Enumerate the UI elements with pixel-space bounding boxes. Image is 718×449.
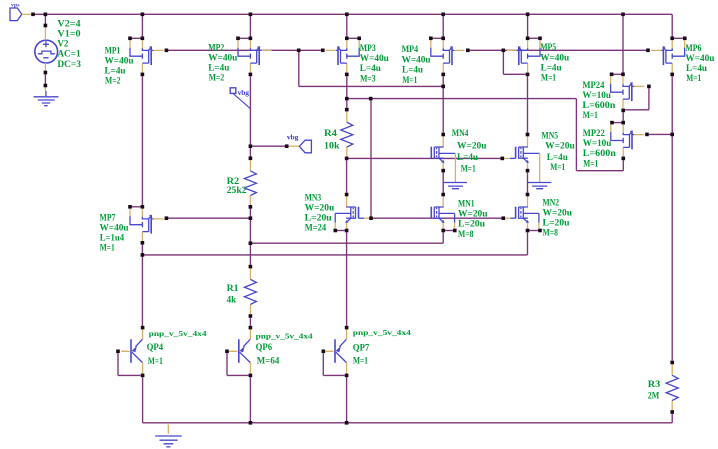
svg-text:W=10u: W=10u — [583, 139, 612, 149]
svg-text:pnp_v_5v_4x4: pnp_v_5v_4x4 — [353, 328, 411, 337]
svg-text:MP7: MP7 — [100, 213, 116, 223]
node vbg pin wire end — [285, 144, 289, 148]
node MN1 drain pin — [441, 193, 445, 197]
node MP1 bulk pin — [128, 37, 132, 41]
wire MP7 drain down — [141, 245, 143, 326]
node MP22 gate pin — [645, 133, 649, 137]
node R2 bottom pin — [249, 205, 253, 209]
transistor MN2 nmos — [516, 196, 539, 229]
svg-text:pnp_v_5v_4x4: pnp_v_5v_4x4 — [149, 329, 207, 338]
wire MP22 gate tie to column — [649, 133, 672, 135]
node MP22 drain pin — [622, 157, 626, 161]
node vdd V2 junction — [44, 13, 48, 17]
node V2 gnd — [44, 84, 48, 88]
wire MP1 bulk tie — [130, 37, 142, 39]
node MP4 gate pin — [466, 49, 470, 53]
svg-text:L=20u: L=20u — [305, 214, 332, 224]
wire MP24 bulk tie — [612, 73, 623, 75]
node QP7 emitter pin — [345, 326, 349, 330]
wire ground rail bottom — [143, 422, 673, 424]
wire MP5 drain to MN5 drain — [527, 76, 529, 133]
node MP5 bulk pin — [538, 37, 542, 41]
svg-text:MP24: MP24 — [582, 81, 604, 91]
wire y255 horizontal — [142, 254, 527, 256]
voltage source V2 — [35, 27, 58, 71]
node QP7 collector pin — [345, 374, 349, 378]
transistor MP2 pmos — [238, 40, 272, 72]
node MP2 source pin — [249, 37, 253, 41]
svg-text:R3: R3 — [648, 380, 661, 390]
transistor MP4 pmos — [431, 40, 465, 72]
svg-text:M=1: M=1 — [550, 163, 565, 173]
svg-text:M=1: M=1 — [686, 74, 701, 84]
node R4 bottom pin — [345, 157, 349, 161]
wire MP24 gate down — [648, 88, 650, 110]
transistor QP6 pnp — [229, 329, 250, 373]
node MP22 source pin — [621, 121, 625, 125]
node MN3 source pin — [345, 229, 349, 233]
node MP7 bulk pin — [128, 205, 132, 209]
node QP7 base pin — [322, 350, 326, 354]
node R3 top pin — [670, 361, 674, 365]
wire MN4 source to MN1 drain — [442, 172, 444, 192]
node MP4 source pin — [441, 37, 445, 41]
svg-text:M=64: M=64 — [257, 357, 280, 367]
wire MP2 bulk tie — [238, 37, 250, 39]
wire vdd top rail — [33, 13, 672, 15]
svg-text:W=20u: W=20u — [457, 142, 487, 152]
transistor MN4 nmos — [431, 136, 467, 188]
resistor R3 — [666, 364, 678, 410]
port vps input pin — [10, 2, 31, 20]
svg-text:L=600n: L=600n — [583, 149, 617, 159]
svg-text:R4: R4 — [324, 129, 337, 139]
svg-text:W=40u: W=40u — [105, 56, 134, 66]
node MN5 drain pin — [526, 133, 530, 137]
wire V2 top — [44, 14, 46, 25]
wire MP4 drain to MN4 drain — [442, 76, 444, 133]
node vdd MP5 junction — [526, 13, 530, 17]
node MP6 source pin — [670, 37, 674, 41]
wire rail to MP3 source — [346, 14, 348, 36]
svg-text:W=20u: W=20u — [543, 209, 573, 219]
node vdd MP4 junction — [441, 13, 445, 17]
svg-text:MP3: MP3 — [360, 44, 376, 54]
svg-text:M=1: M=1 — [353, 357, 368, 367]
svg-text:QP7: QP7 — [353, 343, 370, 353]
svg-text:M=8: M=8 — [458, 230, 474, 240]
node MP4 bulk pin — [429, 37, 433, 41]
svg-text:MP2: MP2 — [208, 44, 224, 54]
svg-text:L=20u: L=20u — [543, 219, 570, 229]
wire MP7 gate to R2 bottom node — [166, 217, 250, 219]
svg-text:M=1: M=1 — [583, 159, 598, 169]
wire R4 bottom to MN3 drain — [346, 160, 348, 192]
svg-text:M=1: M=1 — [100, 244, 115, 254]
transistor MN3 nmos — [335, 196, 358, 229]
svg-text:W=20u: W=20u — [545, 141, 575, 151]
node MP7 gate pin — [165, 216, 169, 220]
wire MP22 bulk tie — [612, 122, 623, 124]
node MN2 drain pin — [526, 193, 530, 197]
wire QP6 base down — [226, 353, 228, 375]
node MN1 source pin — [441, 229, 445, 233]
wire rail to MP2 source — [249, 14, 251, 36]
node QP4 collector pin — [141, 374, 145, 378]
node vdd MP2 junction — [249, 13, 253, 17]
svg-text:L=4u: L=4u — [360, 64, 381, 74]
node MP6 drain pin — [670, 73, 674, 77]
node MP3 drain junction — [345, 97, 349, 101]
wire cascode bias to MP22 drain horizontal — [576, 170, 623, 172]
svg-text:MP5: MP5 — [540, 43, 556, 53]
wire vbg node to R2 top — [249, 148, 251, 157]
wire MN5 gate stub — [504, 157, 510, 159]
node MP6 gate pin — [646, 49, 650, 53]
node MP3 drain pin — [345, 73, 349, 77]
svg-text:W=40u: W=40u — [402, 55, 431, 65]
node MN2 bulk pin — [538, 229, 542, 233]
node MN3 bulk pin — [334, 229, 338, 233]
transistor QP4 pnp — [121, 329, 142, 373]
node MN4 source pin — [441, 169, 445, 173]
wire MP5 bulk tie — [528, 37, 540, 39]
wire MN2 gate stub — [505, 217, 510, 219]
node QP4 emitter pin — [141, 326, 145, 330]
node R2 gate junction — [249, 216, 253, 220]
node MP24 gate pin — [647, 85, 651, 89]
svg-text:L=4u: L=4u — [402, 66, 423, 76]
svg-text:M=1: M=1 — [461, 164, 476, 174]
node QP6 emitter pin — [249, 326, 253, 330]
svg-text:MN5: MN5 — [542, 132, 559, 142]
transistor QP7 pnp — [325, 329, 346, 373]
node MP6 bulk pin — [683, 37, 687, 41]
node MN3 gate junction — [369, 216, 373, 220]
wire MN3 bulk tie — [335, 230, 346, 232]
node gnd rail QP7 junction — [345, 421, 349, 425]
svg-text:QP6: QP6 — [256, 343, 273, 353]
node MN5 source pin — [526, 169, 530, 173]
node MP5 gate pin — [502, 49, 506, 53]
wire bias branch down at x299 — [298, 52, 300, 86]
svg-text:M=2: M=2 — [209, 74, 225, 84]
svg-text:MN2: MN2 — [543, 199, 560, 209]
wire R3 bottom to rail — [671, 414, 673, 423]
resistor R4 — [341, 111, 353, 156]
svg-text:4k: 4k — [227, 296, 237, 306]
wire MP4 bulk tie — [431, 37, 443, 39]
wire rail to MP1 source — [141, 14, 143, 36]
svg-text:W=40u: W=40u — [685, 54, 714, 64]
wire MP22 drain stub up — [622, 160, 624, 171]
transistor MP22 pmos — [611, 124, 645, 156]
svg-text:L=600n: L=600n — [582, 101, 616, 111]
svg-text:L=4u: L=4u — [208, 64, 229, 74]
wire R2 bottom to gate node — [249, 209, 251, 217]
svg-text:10k: 10k — [324, 141, 340, 151]
svg-text:vbg: vbg — [238, 88, 250, 97]
wire QP6 collector down — [249, 377, 251, 423]
node MP7 source pin — [141, 205, 145, 209]
transistor MP1 pmos — [130, 40, 164, 72]
wire QP4 base to collector — [118, 374, 141, 376]
node bias junction x299 — [297, 49, 301, 53]
wire QP7 base to collector — [323, 374, 345, 376]
node MP5 drain pin — [526, 73, 530, 77]
node MP2 drain pin — [249, 73, 253, 77]
node MN5 gate pin — [501, 157, 505, 161]
wire MP24 gate to drain — [625, 109, 649, 111]
svg-text:QP4: QP4 — [147, 343, 164, 353]
wire MN1 bulk tie — [443, 230, 455, 232]
transistor MP7 pmos — [130, 209, 164, 241]
svg-text:W=40u: W=40u — [208, 54, 237, 64]
wire MN1 MN2 gate net — [371, 217, 503, 219]
resistor R1 — [244, 268, 256, 314]
svg-text:L=4u: L=4u — [541, 63, 562, 73]
wire MN2 bulk tie — [528, 230, 541, 232]
node vdd pin junction — [31, 13, 35, 17]
node MP3 gate pin — [321, 49, 325, 53]
svg-text:M=1: M=1 — [402, 76, 417, 86]
wire MP6 bulk tie — [672, 37, 685, 39]
svg-text:V2: V2 — [57, 40, 68, 50]
node R4 top pin — [345, 108, 349, 112]
resistor R2 — [244, 160, 256, 205]
wire R1 bottom to QP6 emitter — [249, 318, 251, 326]
svg-text:M=8: M=8 — [543, 229, 559, 239]
wire node A column x371 — [370, 100, 372, 218]
node MP3 bulk pin — [357, 37, 361, 41]
node gnd rail QP6 junction — [249, 421, 253, 425]
node vdd MP24 junction — [621, 13, 625, 17]
svg-text:25k2: 25k2 — [227, 186, 247, 196]
node MP4 drain bias junction — [441, 85, 445, 89]
node y255 junction — [141, 253, 145, 257]
node MP22 bulk pin — [610, 121, 614, 125]
port vbg output pin — [287, 132, 312, 153]
svg-text:L=4u: L=4u — [547, 153, 568, 163]
node R2 top pin — [249, 157, 253, 161]
svg-text:W=40u: W=40u — [360, 54, 389, 64]
node MP24 source pin — [621, 73, 625, 77]
wire bias branch to MP4 drain node — [299, 85, 443, 87]
wire MN1 source down — [442, 232, 444, 243]
svg-text:L=1u4: L=1u4 — [100, 234, 125, 244]
node vbg junction — [249, 144, 253, 148]
wire MP5 diode down — [502, 52, 504, 74]
svg-text:L=4u: L=4u — [686, 64, 707, 74]
node MP24 drain pin — [621, 109, 625, 113]
wire MP1 drain to MP7 source — [141, 76, 143, 205]
svg-text:W=40u: W=40u — [100, 224, 129, 234]
svg-text:M=1: M=1 — [541, 74, 556, 84]
node MP5 source pin — [526, 37, 530, 41]
svg-text:MN1: MN1 — [458, 200, 475, 210]
wire rail to MP4 source — [442, 14, 444, 36]
node label vbg on MP2 drain wire — [230, 88, 250, 109]
svg-text:W=40u: W=40u — [540, 53, 569, 63]
wire R4 bottom to MN4 MN5 gates — [347, 157, 501, 159]
svg-text:2M: 2M — [648, 392, 660, 402]
ground below V2 — [34, 87, 59, 105]
transistor MN1 nmos — [431, 196, 454, 229]
wire MP5 diode to drain — [503, 73, 525, 75]
wire MP2 drain down to vbg node — [249, 76, 251, 144]
node V2 minus — [44, 71, 48, 75]
wire pmos gate bias left segment — [166, 49, 322, 51]
svg-text:MN3: MN3 — [305, 194, 322, 204]
wire rail to MP24 source — [622, 14, 624, 72]
node MP24 bulk pin — [610, 73, 614, 77]
svg-text:R1: R1 — [227, 284, 239, 294]
node MP7 drain pin — [141, 241, 145, 245]
svg-text:MN4: MN4 — [452, 129, 469, 139]
svg-text:W=20u: W=20u — [305, 204, 335, 214]
svg-text:W=20u: W=20u — [458, 210, 488, 220]
node y243 junction — [249, 241, 253, 245]
svg-text:V1=0: V1=0 — [57, 30, 81, 40]
svg-text:L=20u: L=20u — [458, 219, 485, 229]
svg-text:DC=3: DC=3 — [57, 60, 81, 70]
node QP4 base pin — [116, 350, 120, 354]
ground bottom rail — [155, 425, 182, 447]
node MP1 gate pin — [165, 49, 169, 53]
svg-text:L=4u: L=4u — [105, 67, 126, 77]
transistor MP6 pmos — [651, 40, 685, 72]
node MP2 bulk pin — [236, 37, 240, 41]
node QP6 collector pin — [249, 374, 253, 378]
svg-text:AC=1: AC=1 — [57, 50, 81, 60]
node R1 top pin — [249, 265, 253, 269]
transistor MN5 nmos — [516, 136, 552, 188]
svg-text:M=1: M=1 — [148, 357, 163, 367]
node QP6 base pin — [225, 350, 229, 354]
wire cascode bias horizontal y98 — [347, 98, 577, 100]
node vdd MP3 junction — [345, 13, 349, 17]
wire pmos gate bias right segment — [468, 49, 648, 51]
wire QP6 base to collector — [227, 374, 249, 376]
svg-text:M=1: M=1 — [583, 111, 598, 121]
node MP1 source pin — [141, 37, 145, 41]
svg-text:MP22: MP22 — [583, 129, 605, 139]
node MP1 drain pin — [141, 73, 145, 77]
svg-text:W=10u: W=10u — [582, 91, 611, 101]
wire MP24 drain to MP22 source — [622, 112, 624, 121]
node MN3 drain pin — [345, 193, 349, 197]
wire MN3 gate stub — [359, 217, 365, 219]
svg-text:MP4: MP4 — [402, 45, 419, 55]
wire QP4 collector down — [142, 377, 144, 423]
transistor MP24 pmos — [611, 76, 645, 108]
svg-text:MP6: MP6 — [685, 44, 701, 54]
wire MP7 bulk tie — [130, 206, 142, 208]
wire gate node down — [249, 220, 251, 241]
wire vdd rail corner to MP6 source — [671, 14, 673, 36]
svg-text:M=2: M=2 — [105, 77, 121, 87]
wire y243 horizontal — [250, 242, 443, 244]
svg-text:vbg: vbg — [287, 132, 299, 141]
node MN2 source pin — [526, 229, 530, 233]
wire MP6 drain to R3 — [671, 76, 673, 360]
wire cascode bias down x576 — [575, 99, 577, 171]
wire vbg node to output pin — [252, 145, 285, 147]
wire QP7 base down — [322, 353, 324, 375]
transistor MP5 pmos — [506, 40, 540, 72]
node MN2 gate pin — [502, 216, 506, 220]
node vdd MP1 junction — [141, 13, 145, 17]
node MP4 drain pin — [441, 73, 445, 77]
svg-text:L=4u: L=4u — [457, 153, 478, 163]
svg-text:pnp_v_5v_4x4: pnp_v_5v_4x4 — [256, 331, 313, 340]
wire MN5 source to MN2 drain — [527, 172, 529, 192]
svg-text:V2=4: V2=4 — [57, 19, 81, 29]
wire MP3 bulk tie — [347, 37, 359, 39]
node MP3 source pin — [345, 37, 349, 41]
svg-text:M=24: M=24 — [305, 224, 327, 234]
svg-text:MP1: MP1 — [105, 46, 121, 56]
node V2 plus — [44, 24, 48, 28]
wire QP4 base down — [117, 353, 119, 375]
svg-text:vps: vps — [11, 2, 20, 8]
wire node down to R1 top — [249, 245, 251, 265]
node R3 bottom pin — [670, 410, 674, 414]
transistor MP3 pmos — [326, 40, 360, 72]
wire QP7 collector down — [346, 377, 348, 423]
node MP22 gate column junction — [670, 133, 674, 137]
node MN1 bulk pin — [453, 229, 457, 233]
svg-text:M=3: M=3 — [360, 74, 376, 84]
node MN4 drain pin — [441, 133, 445, 137]
wire MN2 source down — [527, 232, 529, 255]
node column x371 top junction — [369, 97, 373, 101]
wire MP3 drain down — [346, 76, 348, 97]
node R1 bottom pin — [249, 314, 253, 318]
wire rail to MP5 source — [527, 14, 529, 36]
wire MN3 source to QP7 emitter — [346, 232, 348, 325]
wire V2 bottom to gnd — [44, 74, 46, 86]
wire junction to R4 top — [346, 100, 348, 107]
